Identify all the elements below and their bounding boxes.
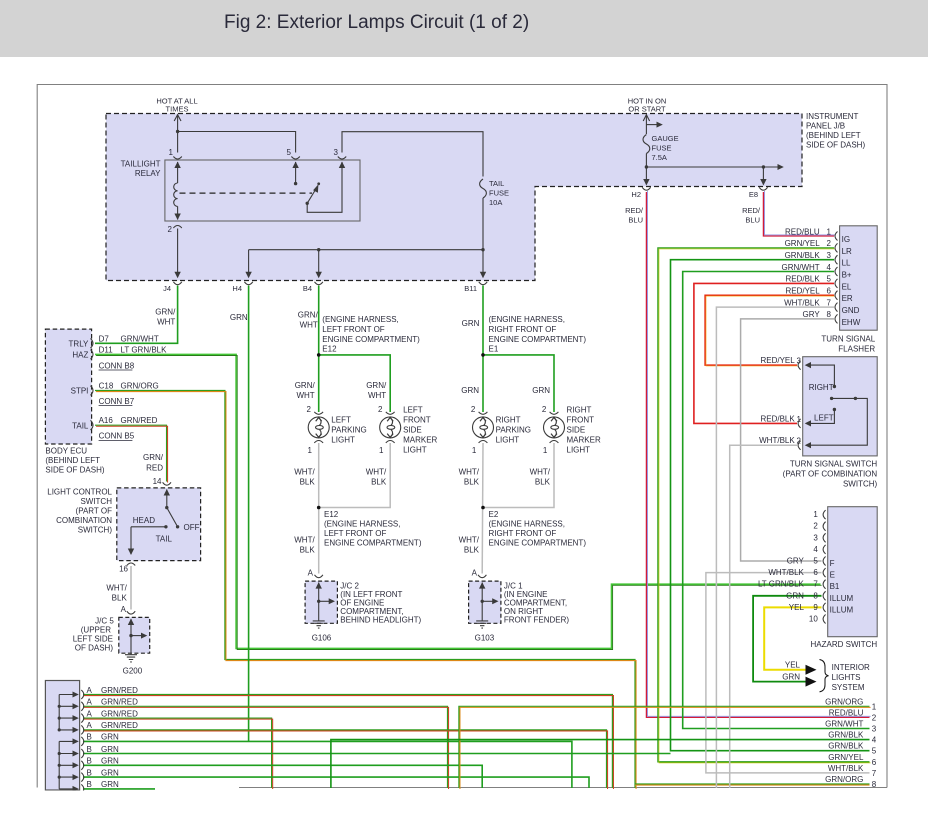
svg-text:BLU: BLU (628, 216, 643, 225)
svg-text:14: 14 (153, 477, 162, 486)
svg-text:G103: G103 (475, 634, 495, 643)
svg-text:RED/YEL: RED/YEL (760, 356, 795, 365)
svg-text:RED/BLK: RED/BLK (785, 275, 820, 284)
svg-text:(PART OF COMBINATION: (PART OF COMBINATION (783, 470, 878, 479)
svg-text:(BEHIND LEFT: (BEHIND LEFT (806, 131, 861, 140)
svg-text:H2: H2 (631, 190, 641, 199)
svg-text:FUSE: FUSE (489, 189, 509, 198)
svg-text:FRONT: FRONT (567, 416, 595, 425)
svg-text:OFF: OFF (184, 523, 200, 532)
svg-text:LT GRN/BLK: LT GRN/BLK (121, 345, 168, 354)
svg-text:(ENGINE HARNESS,: (ENGINE HARNESS, (489, 520, 565, 529)
svg-text:GRN/ORG: GRN/ORG (825, 775, 863, 784)
svg-text:CONN B8: CONN B8 (99, 361, 135, 370)
svg-text:H4: H4 (232, 284, 242, 293)
svg-text:TAILLIGHT: TAILLIGHT (121, 160, 161, 169)
svg-text:WHT/BLK: WHT/BLK (768, 568, 804, 577)
svg-text:GRN/BLK: GRN/BLK (828, 731, 864, 740)
svg-text:WHT/: WHT/ (530, 468, 551, 477)
svg-text:1: 1 (813, 510, 818, 519)
svg-text:OF DASH): OF DASH) (75, 644, 114, 653)
svg-text:RED: RED (146, 463, 163, 472)
svg-text:GRN/: GRN/ (366, 381, 387, 390)
svg-text:EHW: EHW (842, 318, 861, 327)
svg-text:8: 8 (872, 780, 877, 789)
svg-text:GRN/BLK: GRN/BLK (785, 251, 821, 260)
svg-text:B4: B4 (303, 284, 312, 293)
svg-text:8: 8 (813, 591, 818, 600)
svg-text:GRN/: GRN/ (155, 308, 176, 317)
svg-text:GRN/RED: GRN/RED (101, 709, 138, 718)
svg-text:SWITCH): SWITCH) (843, 480, 878, 489)
svg-text:7: 7 (872, 769, 877, 778)
svg-text:LEFT: LEFT (403, 406, 423, 415)
svg-text:GRN/YEL: GRN/YEL (785, 239, 821, 248)
svg-text:GRN/ORG: GRN/ORG (825, 697, 863, 706)
svg-text:3: 3 (827, 251, 832, 260)
svg-text:WHT/: WHT/ (459, 536, 480, 545)
svg-text:6: 6 (827, 287, 832, 296)
svg-text:LEFT FRONT OF: LEFT FRONT OF (324, 529, 386, 538)
svg-text:BEHIND HEADLIGHT): BEHIND HEADLIGHT) (340, 616, 421, 625)
svg-text:1: 1 (308, 446, 313, 455)
svg-text:WHT/BLK: WHT/BLK (784, 298, 820, 307)
svg-text:LIGHT: LIGHT (496, 436, 520, 445)
svg-text:GRN: GRN (782, 673, 800, 682)
svg-text:GRN/RED: GRN/RED (121, 416, 158, 425)
svg-text:LL: LL (842, 259, 851, 268)
svg-text:7: 7 (813, 580, 818, 589)
svg-text:D11: D11 (99, 345, 114, 354)
svg-text:5: 5 (813, 557, 818, 566)
svg-text:LT GRN/BLK: LT GRN/BLK (758, 580, 805, 589)
svg-text:WHT/: WHT/ (459, 468, 480, 477)
svg-text:OR START: OR START (628, 105, 666, 114)
svg-text:YEL: YEL (785, 661, 801, 670)
svg-text:SWITCH): SWITCH) (78, 526, 113, 535)
svg-text:2: 2 (827, 239, 832, 248)
svg-text:ILLUM: ILLUM (830, 605, 854, 614)
svg-text:GRN: GRN (230, 313, 248, 322)
svg-text:A: A (308, 569, 314, 578)
svg-text:5: 5 (872, 747, 877, 756)
svg-text:GAUGE: GAUGE (652, 134, 679, 143)
svg-text:RIGHT: RIGHT (809, 383, 834, 392)
svg-text:RIGHT FRONT OF: RIGHT FRONT OF (489, 529, 557, 538)
svg-text:LIGHT: LIGHT (403, 446, 427, 455)
svg-text:16: 16 (119, 565, 128, 574)
svg-text:SYSTEM: SYSTEM (832, 683, 865, 692)
svg-text:LEFT: LEFT (331, 416, 351, 425)
svg-text:TURN SIGNAL: TURN SIGNAL (821, 335, 875, 344)
svg-text:GRN/WHT: GRN/WHT (781, 263, 819, 272)
svg-text:9: 9 (813, 603, 818, 612)
svg-text:YEL: YEL (789, 603, 805, 612)
svg-text:RIGHT: RIGHT (567, 406, 592, 415)
svg-text:F: F (830, 559, 835, 568)
svg-text:B1: B1 (830, 582, 840, 591)
svg-text:BLK: BLK (535, 478, 551, 487)
svg-text:1: 1 (379, 446, 384, 455)
svg-text:BLK: BLK (300, 478, 316, 487)
svg-text:ENGINE COMPARTMENT): ENGINE COMPARTMENT) (322, 335, 420, 344)
svg-text:E12: E12 (324, 510, 339, 519)
svg-text:BLK: BLK (464, 546, 480, 555)
svg-text:GRN/: GRN/ (295, 381, 316, 390)
svg-text:CONN B7: CONN B7 (99, 397, 135, 406)
svg-text:A: A (121, 605, 127, 614)
svg-text:2: 2 (542, 405, 547, 414)
svg-text:1: 1 (169, 148, 174, 157)
svg-text:INTERIOR: INTERIOR (832, 663, 870, 672)
svg-text:ENGINE COMPARTMENT): ENGINE COMPARTMENT) (489, 539, 587, 548)
svg-text:GRN/RED: GRN/RED (101, 721, 138, 730)
svg-text:COMBINATION: COMBINATION (56, 516, 112, 525)
svg-text:TIMES: TIMES (166, 105, 189, 114)
svg-text:E: E (830, 571, 835, 580)
svg-text:LEFT SIDE: LEFT SIDE (73, 635, 113, 644)
svg-text:7: 7 (827, 298, 832, 307)
svg-text:FUSE: FUSE (652, 144, 672, 153)
svg-text:GRN/WHT: GRN/WHT (825, 720, 863, 729)
svg-text:7.5A: 7.5A (652, 153, 667, 162)
svg-text:A16: A16 (99, 416, 114, 425)
svg-text:RED/BLU: RED/BLU (829, 708, 864, 717)
svg-text:GRN: GRN (101, 757, 119, 766)
svg-text:WHT/: WHT/ (294, 468, 315, 477)
svg-text:B: B (87, 745, 92, 754)
svg-text:2: 2 (872, 713, 877, 722)
svg-text:B: B (87, 768, 92, 777)
svg-text:GRN/: GRN/ (298, 311, 319, 320)
svg-text:4: 4 (872, 736, 877, 745)
svg-text:RED/YEL: RED/YEL (785, 287, 820, 296)
svg-text:LIGHTS: LIGHTS (832, 673, 861, 682)
svg-text:SIDE: SIDE (567, 426, 586, 435)
svg-text:1: 1 (827, 227, 832, 236)
svg-text:SIDE: SIDE (403, 426, 422, 435)
svg-text:WHT/: WHT/ (294, 536, 315, 545)
svg-text:E2: E2 (489, 510, 499, 519)
svg-text:RIGHT FRONT OF: RIGHT FRONT OF (489, 325, 557, 334)
svg-text:2: 2 (813, 522, 818, 531)
svg-text:G200: G200 (123, 667, 143, 676)
svg-text:GRN: GRN (101, 768, 119, 777)
svg-text:GRN/WHT: GRN/WHT (121, 334, 159, 343)
svg-text:GND: GND (842, 306, 860, 315)
svg-text:RED/: RED/ (625, 206, 644, 215)
svg-text:GRN: GRN (786, 591, 804, 600)
svg-text:A: A (87, 709, 93, 718)
svg-text:6: 6 (872, 758, 877, 767)
svg-text:GRN: GRN (101, 780, 119, 789)
svg-text:IG: IG (842, 235, 850, 244)
svg-text:WHT: WHT (157, 318, 175, 327)
svg-text:LIGHT CONTROL: LIGHT CONTROL (47, 488, 112, 497)
svg-text:GRN: GRN (101, 733, 119, 742)
svg-text:LEFT: LEFT (814, 414, 834, 423)
svg-text:3: 3 (872, 725, 877, 734)
svg-text:PARKING: PARKING (331, 426, 366, 435)
svg-text:2: 2 (378, 405, 383, 414)
svg-text:HAZARD SWITCH: HAZARD SWITCH (811, 640, 878, 649)
svg-text:WHT: WHT (368, 391, 386, 400)
svg-text:MARKER: MARKER (403, 436, 437, 445)
svg-text:BLK: BLK (300, 546, 316, 555)
svg-text:BODY ECU: BODY ECU (45, 446, 87, 455)
svg-text:FRONT FENDER): FRONT FENDER) (504, 616, 570, 625)
svg-text:GRN: GRN (532, 386, 550, 395)
svg-text:TRLY: TRLY (69, 340, 90, 349)
svg-text:2: 2 (471, 405, 476, 414)
svg-text:6: 6 (813, 568, 818, 577)
svg-text:4: 4 (827, 263, 832, 272)
svg-text:WHT: WHT (300, 321, 318, 330)
svg-text:ER: ER (842, 294, 853, 303)
svg-text:GRN/: GRN/ (143, 453, 164, 462)
svg-text:G106: G106 (312, 634, 332, 643)
svg-text:1: 1 (543, 446, 548, 455)
svg-text:TAIL: TAIL (156, 535, 173, 544)
svg-text:4: 4 (813, 545, 818, 554)
svg-text:CONN B5: CONN B5 (99, 432, 135, 441)
svg-text:WHT/BLK: WHT/BLK (759, 436, 795, 445)
svg-text:B: B (87, 733, 92, 742)
svg-text:HAZ: HAZ (72, 351, 88, 360)
svg-text:SIDE OF DASH): SIDE OF DASH) (45, 465, 104, 474)
svg-text:1: 1 (472, 446, 477, 455)
svg-text:GRY: GRY (787, 557, 805, 566)
svg-text:MARKER: MARKER (567, 436, 601, 445)
svg-text:RED/BLU: RED/BLU (785, 227, 820, 236)
svg-text:5: 5 (827, 275, 832, 284)
svg-text:STPI: STPI (71, 387, 89, 396)
svg-text:3: 3 (813, 533, 818, 542)
svg-text:J4: J4 (163, 284, 171, 293)
svg-text:ILLUM: ILLUM (830, 594, 854, 603)
svg-text:B11: B11 (464, 284, 477, 293)
svg-text:A: A (87, 686, 93, 695)
svg-text:LEFT FRONT OF: LEFT FRONT OF (322, 325, 384, 334)
svg-text:TAIL: TAIL (72, 422, 89, 431)
svg-text:WHT/BLK: WHT/BLK (828, 764, 864, 773)
svg-text:E8: E8 (749, 190, 758, 199)
svg-text:LIGHT: LIGHT (331, 436, 355, 445)
svg-text:PANEL J/B: PANEL J/B (806, 122, 845, 131)
svg-text:C18: C18 (99, 382, 114, 391)
svg-text:J/C 5: J/C 5 (95, 617, 114, 626)
svg-text:WHT: WHT (296, 391, 314, 400)
svg-text:3: 3 (334, 148, 339, 157)
svg-text:(BEHIND LEFT: (BEHIND LEFT (45, 456, 100, 465)
svg-text:RED/BLK: RED/BLK (760, 414, 795, 423)
svg-text:Fig 2: Exterior Lamps Circuit: Fig 2: Exterior Lamps Circuit (1 of 2) (224, 12, 529, 33)
svg-text:2: 2 (307, 405, 312, 414)
svg-text:A: A (87, 698, 93, 707)
svg-text:(PART OF: (PART OF (76, 507, 113, 516)
svg-text:SIDE OF DASH): SIDE OF DASH) (806, 141, 865, 150)
svg-text:B: B (87, 780, 92, 789)
svg-text:(ENGINE HARNESS,: (ENGINE HARNESS, (489, 315, 565, 324)
svg-text:GRN: GRN (462, 319, 480, 328)
svg-text:D7: D7 (99, 334, 110, 343)
svg-text:LIGHT: LIGHT (567, 446, 591, 455)
svg-text:(ENGINE HARNESS,: (ENGINE HARNESS, (322, 315, 398, 324)
svg-text:TAIL: TAIL (489, 179, 504, 188)
svg-text:GRN: GRN (461, 386, 479, 395)
svg-text:HEAD: HEAD (133, 516, 155, 525)
svg-text:WHT/: WHT/ (366, 468, 387, 477)
svg-text:GRN/BLK: GRN/BLK (828, 742, 864, 751)
svg-text:BLK: BLK (464, 478, 480, 487)
svg-text:BLK: BLK (371, 478, 387, 487)
svg-text:E12: E12 (322, 345, 337, 354)
svg-text:TURN SIGNAL SWITCH: TURN SIGNAL SWITCH (790, 460, 877, 469)
svg-text:8: 8 (827, 310, 832, 319)
svg-text:(UPPER: (UPPER (81, 626, 111, 635)
svg-text:PARKING: PARKING (496, 426, 531, 435)
svg-text:GRN/RED: GRN/RED (101, 698, 138, 707)
svg-text:EL: EL (842, 282, 852, 291)
svg-text:RIGHT: RIGHT (496, 416, 521, 425)
svg-text:LR: LR (842, 247, 852, 256)
svg-text:10: 10 (809, 615, 818, 624)
svg-text:1: 1 (872, 702, 877, 711)
svg-text:10A: 10A (489, 198, 502, 207)
svg-text:RELAY: RELAY (135, 169, 161, 178)
svg-text:ENGINE COMPARTMENT): ENGINE COMPARTMENT) (489, 335, 587, 344)
svg-text:RED/: RED/ (742, 206, 761, 215)
svg-text:GRN: GRN (101, 745, 119, 754)
svg-text:GRN/ORG: GRN/ORG (121, 382, 159, 391)
svg-text:E1: E1 (489, 345, 499, 354)
svg-text:A: A (87, 721, 93, 730)
svg-text:GRN/RED: GRN/RED (101, 686, 138, 695)
svg-text:B: B (87, 757, 92, 766)
svg-text:2: 2 (168, 225, 173, 234)
svg-text:GRN/YEL: GRN/YEL (828, 753, 864, 762)
svg-text:BLU: BLU (745, 216, 760, 225)
svg-text:FRONT: FRONT (403, 416, 431, 425)
svg-text:5: 5 (287, 148, 292, 157)
svg-text:FLASHER: FLASHER (838, 345, 875, 354)
svg-text:BLK: BLK (112, 594, 128, 603)
svg-text:GRY: GRY (802, 310, 820, 319)
svg-text:WHT/: WHT/ (106, 584, 127, 593)
svg-text:INSTRUMENT: INSTRUMENT (806, 112, 859, 121)
svg-text:B+: B+ (842, 271, 852, 280)
svg-text:ENGINE COMPARTMENT): ENGINE COMPARTMENT) (324, 539, 422, 548)
svg-text:A: A (472, 569, 478, 578)
svg-text:SWITCH: SWITCH (80, 497, 112, 506)
svg-text:(ENGINE HARNESS,: (ENGINE HARNESS, (324, 520, 400, 529)
